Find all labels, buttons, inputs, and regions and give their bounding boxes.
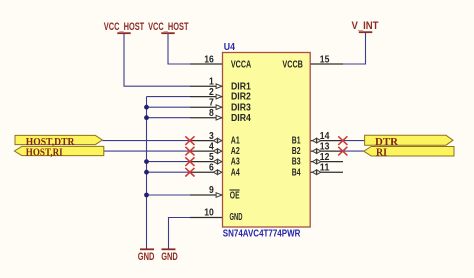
wire V_INT vertical to pin15 row	[343, 33, 366, 64]
port DTR	[365, 135, 453, 148]
no-ERC cross on A3	[185, 157, 194, 166]
pin 2 stub	[190, 96, 223, 98]
svg-text:RI: RI	[376, 146, 387, 158]
pin 10 stub	[190, 217, 223, 219]
pin 3 stub	[190, 140, 223, 142]
pin glyph input DIR1	[216, 84, 222, 89]
IC U4 body (SN74AVC4T774PWR)	[223, 53, 311, 228]
pin glyph bidir A3	[213, 159, 221, 164]
svg-text:GND: GND	[230, 212, 243, 223]
wire DIR4	[147, 117, 191, 119]
svg-text:13: 13	[320, 142, 330, 153]
pin glyph input DIR3	[216, 105, 222, 110]
pin glyph bidir B1	[313, 138, 321, 143]
pin glyph bidir B2	[313, 149, 321, 154]
svg-text:A2: A2	[231, 146, 240, 157]
svg-text:8: 8	[209, 108, 214, 119]
pin glyph bidir A1	[213, 138, 221, 143]
pin 5 stub	[190, 161, 223, 163]
svg-text:14: 14	[320, 131, 330, 142]
ground GND #2	[161, 249, 178, 263]
wire GND bus vertical	[146, 97, 148, 249]
pin glyph input OE	[216, 193, 222, 198]
svg-text:V_INT: V_INT	[352, 20, 379, 32]
pin glyph bidir B4	[313, 170, 321, 175]
svg-text:GND: GND	[161, 251, 178, 263]
pin glyph input DIR2	[216, 94, 222, 99]
pin 4 stub	[190, 150, 223, 152]
svg-text:DIR1: DIR1	[231, 81, 251, 92]
power port V_INT	[352, 20, 379, 32]
pin 16 stub	[190, 63, 223, 65]
pin 14 stub	[310, 140, 343, 142]
port RI	[364, 146, 454, 158]
wire OE	[147, 194, 191, 196]
junction at DIR3	[144, 105, 149, 110]
svg-text:SN74AVC4T774PWR: SN74AVC4T774PWR	[223, 228, 301, 239]
wire A3	[147, 161, 191, 163]
power port VCC_HOST #1	[104, 21, 145, 33]
svg-text:HOST,RI: HOST,RI	[26, 147, 63, 159]
pin glyph bidir B3	[313, 159, 321, 164]
no-ERC cross on A1	[185, 136, 194, 145]
svg-text:VCCB: VCCB	[282, 59, 303, 70]
power port VCC_HOST #2	[148, 21, 189, 33]
junction at A3	[144, 159, 149, 164]
svg-text:12: 12	[320, 152, 330, 163]
no-ERC cross on B2	[338, 147, 347, 156]
no-ERC cross on A4	[185, 168, 194, 177]
svg-text:VCC_HOST: VCC_HOST	[104, 21, 145, 33]
svg-text:DIR2: DIR2	[231, 92, 251, 103]
pin 7 stub	[190, 106, 223, 108]
svg-text:4: 4	[209, 142, 214, 153]
svg-text:15: 15	[320, 55, 330, 66]
svg-text:VCCA: VCCA	[231, 59, 251, 70]
pin 13 stub	[310, 150, 343, 152]
junction at OE	[144, 193, 149, 198]
wire B2 to RI port	[343, 150, 364, 152]
svg-text:10: 10	[204, 208, 214, 219]
svg-text:7: 7	[209, 98, 214, 109]
wire VCC_HOST#1 vertical to pin1 row	[124, 34, 190, 86]
svg-text:DIR4: DIR4	[231, 113, 251, 124]
port HOST,DTR	[15, 135, 102, 148]
svg-text:16: 16	[204, 55, 214, 66]
svg-text:B4: B4	[292, 167, 301, 178]
svg-text:2: 2	[209, 87, 214, 98]
svg-text:OE: OE	[230, 190, 240, 201]
pin 15 stub	[310, 63, 343, 65]
wire GND#2 vertical to pin10 row	[169, 218, 191, 249]
wire DIR2	[147, 96, 191, 98]
no-ERC cross on B1	[338, 136, 347, 145]
ground GND #1	[138, 249, 155, 263]
svg-text:VCC_HOST: VCC_HOST	[148, 21, 189, 33]
pin 11 stub	[310, 171, 343, 173]
svg-text:9: 9	[209, 185, 214, 196]
junction at DIR4	[144, 115, 149, 120]
svg-text:5: 5	[209, 152, 214, 163]
svg-text:11: 11	[320, 163, 330, 174]
wire HOST,RI to A2	[104, 150, 190, 152]
wire HOST,DTR to A1	[102, 140, 190, 142]
junction at A4	[144, 170, 149, 175]
svg-text:A3: A3	[231, 157, 240, 168]
pin 6 stub	[190, 171, 223, 173]
pin glyph input DIR4	[216, 115, 222, 120]
wire VCC_HOST#2 vertical to pin16 row	[168, 34, 190, 64]
no-ERC cross on A2	[185, 147, 194, 156]
svg-text:U4: U4	[224, 42, 236, 53]
port HOST,RI	[14, 146, 103, 158]
pin 8 stub	[190, 117, 223, 119]
svg-text:B3: B3	[292, 157, 301, 168]
svg-text:GND: GND	[138, 251, 155, 263]
pin glyph bidir A4	[213, 170, 221, 175]
wire A4	[147, 171, 191, 173]
pin 9 stub	[190, 194, 223, 196]
svg-text:B2: B2	[292, 146, 301, 157]
svg-text:3: 3	[209, 131, 214, 142]
svg-text:DIR3: DIR3	[231, 102, 251, 113]
svg-text:B1: B1	[292, 136, 301, 147]
pin 12 stub	[310, 161, 343, 163]
wire B1 to DTR port	[343, 140, 365, 142]
wire DIR3	[147, 106, 191, 108]
svg-text:6: 6	[209, 163, 214, 174]
svg-text:A4: A4	[231, 167, 240, 178]
pin glyph bidir A2	[213, 149, 221, 154]
pin name OE with overline	[230, 190, 240, 201]
svg-text:A1: A1	[231, 136, 240, 147]
pin 1 stub	[190, 85, 223, 87]
